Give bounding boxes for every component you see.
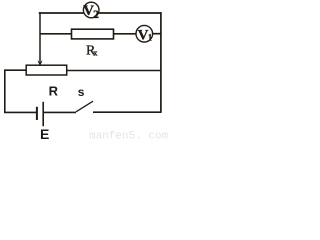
resistor Rx box <box>72 29 114 39</box>
switch S lever <box>76 101 93 112</box>
svg-text:x: x <box>93 48 98 58</box>
wire rheostat right to rail <box>67 70 161 72</box>
label Rx <box>86 43 98 58</box>
wire left rail vertical <box>4 69 6 112</box>
wire battery to switch <box>43 111 76 113</box>
wire top-right horizontal <box>99 12 162 14</box>
wire Rx to V1 <box>114 33 137 35</box>
svg-text:s: s <box>78 85 85 99</box>
wire right rail vertical <box>160 12 162 112</box>
wire branch to Rx <box>40 33 72 35</box>
wiper arrowhead <box>38 61 42 66</box>
wire bottom left <box>4 111 37 113</box>
battery E long plate <box>42 102 44 126</box>
wire wiper vertical <box>39 12 41 61</box>
wire switch to right rail <box>93 111 162 113</box>
svg-text:2: 2 <box>93 7 99 21</box>
svg-text:R: R <box>49 83 59 98</box>
wire V1 to right rail <box>153 33 162 35</box>
wire top-left horizontal <box>39 12 84 14</box>
rheostat R box <box>26 65 66 75</box>
voltmeter V1 <box>136 25 153 43</box>
svg-text:1: 1 <box>148 32 153 42</box>
svg-text:E: E <box>40 126 49 142</box>
battery E short plate <box>36 107 38 120</box>
wire rheostat left terminal <box>5 69 26 71</box>
voltmeter V2 <box>83 2 99 21</box>
svg-text:manfen5. com: manfen5. com <box>89 131 168 143</box>
